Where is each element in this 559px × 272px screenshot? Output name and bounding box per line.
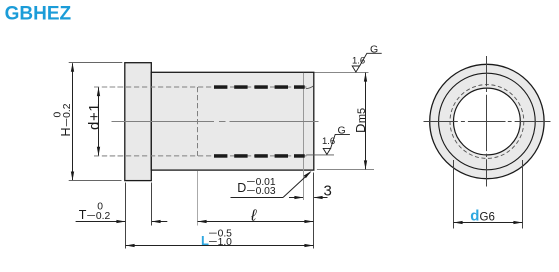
- dimension Dm5: [315, 73, 375, 170]
- svg-text:0: 0: [97, 202, 103, 213]
- svg-text:G: G: [370, 43, 378, 55]
- dimension dG6: [454, 160, 523, 229]
- svg-text:1.6: 1.6: [352, 55, 365, 66]
- svg-text:Dm5: Dm5: [353, 108, 368, 133]
- bore step hidden line: [197, 87, 199, 156]
- body outline: [151, 72, 313, 170]
- carbide dashes top row: [214, 85, 305, 89]
- flange outline: [125, 63, 152, 181]
- grind zone boundary line: [303, 73, 305, 200]
- front view bore circle: [454, 88, 521, 155]
- dimension l (bore length): [198, 171, 314, 226]
- surface finish symbol top (1.6 G): [352, 43, 382, 72]
- svg-text:H: H: [59, 127, 73, 136]
- dimension d+1: [86, 87, 124, 156]
- dimension 3 (grind zone): [289, 183, 332, 200]
- svg-text:3: 3: [324, 183, 332, 200]
- svg-text:G: G: [338, 125, 346, 137]
- bore hidden line bottom: [94, 155, 307, 157]
- svg-text:1.6: 1.6: [322, 136, 335, 147]
- dimension H: [53, 63, 123, 181]
- svg-text:0: 0: [53, 112, 64, 118]
- svg-text:d: d: [470, 208, 479, 225]
- svg-text:−0.2: −0.2: [86, 211, 110, 222]
- bore hidden line top: [94, 86, 307, 88]
- front view center line vertical: [486, 56, 488, 187]
- surface finish symbol lower (1.6 G): [306, 125, 350, 155]
- front view flange circle: [439, 73, 536, 170]
- dimension T: [76, 183, 168, 249]
- dimension L: [126, 173, 314, 249]
- svg-text:ℓ: ℓ: [250, 208, 257, 225]
- svg-text:GBHEZ: GBHEZ: [5, 3, 72, 24]
- svg-text:d+1: d+1: [86, 103, 103, 130]
- center line left view: [112, 121, 319, 123]
- svg-text:−0.03: −0.03: [246, 186, 276, 197]
- svg-text:G6: G6: [480, 212, 495, 224]
- dimension D with tolerance leader: [231, 171, 312, 198]
- bore entry chamfer mark: [306, 86, 313, 89]
- carbide dashes bottom row: [214, 154, 305, 158]
- svg-text:D: D: [237, 181, 246, 195]
- front view center line horizontal: [424, 121, 551, 123]
- front view hidden circle d+1: [450, 85, 524, 159]
- svg-text:−1.0: −1.0: [208, 237, 232, 248]
- svg-text:−0.2: −0.2: [62, 103, 73, 127]
- front view outer circle: [430, 64, 544, 178]
